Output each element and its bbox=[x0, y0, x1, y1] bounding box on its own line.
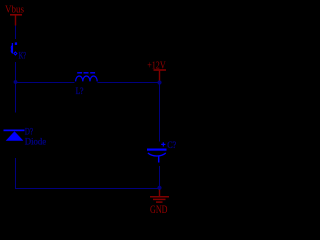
svg-text:Vbus: Vbus bbox=[5, 4, 24, 15]
svg-text:GND: GND bbox=[150, 202, 168, 216]
svg-text:K?: K? bbox=[19, 51, 27, 61]
svg-text:Diode: Diode bbox=[25, 138, 46, 148]
svg-text:D?: D? bbox=[25, 128, 33, 138]
svg-text:C?: C? bbox=[167, 141, 176, 151]
svg-text:L?: L? bbox=[76, 87, 84, 97]
